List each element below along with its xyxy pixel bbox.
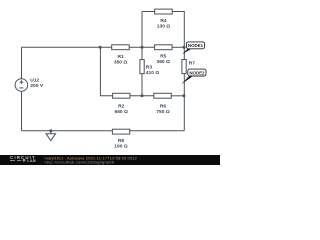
wire top-left horizontal to R1	[22, 46, 112, 48]
resistor R6	[154, 93, 172, 115]
svg-text:130 Ω: 130 Ω	[157, 24, 171, 30]
wire right rail from R7 top to NODE1 junction up to top corner then left to R4	[172, 12, 184, 60]
wire left rail from top corner down to source top	[21, 47, 23, 78]
svg-text:R7: R7	[189, 60, 196, 66]
ground	[46, 129, 56, 140]
wire below source down to bottom bus	[21, 91, 23, 130]
svg-text:R2: R2	[118, 104, 125, 110]
wire left mid rail down from R1 left junction	[100, 47, 112, 96]
voltage source U12	[15, 78, 44, 92]
node junction R1-R5-R3	[141, 46, 144, 49]
node junction left of R1	[99, 46, 102, 49]
svg-text:NODE2: NODE2	[189, 70, 205, 75]
resistor R2	[113, 93, 130, 115]
resistor R8	[112, 129, 129, 149]
wire bottom bus left segment	[22, 130, 113, 132]
resistor R3	[140, 47, 159, 96]
wire R6 right to right rail	[171, 95, 184, 97]
svg-text:R3: R3	[146, 64, 153, 70]
svg-text:200 V: 200 V	[30, 83, 44, 89]
wire R5 right to NODE1 junction	[172, 46, 184, 48]
svg-text:360 Ω: 360 Ω	[156, 59, 170, 65]
svg-text:750 Ω: 750 Ω	[156, 109, 170, 115]
node junction R6 right on right rail	[182, 94, 185, 97]
resistor R7	[182, 60, 195, 74]
svg-text:190 Ω: 190 Ω	[114, 143, 128, 149]
node junction R3 bottom	[141, 94, 144, 97]
svg-text:R6: R6	[160, 104, 167, 110]
svg-text:LAB: LAB	[27, 159, 36, 163]
svg-text:650 Ω: 650 Ω	[114, 109, 128, 115]
node NODE2 callout	[181, 69, 206, 84]
resistor R1	[112, 45, 130, 66]
svg-text:R1: R1	[117, 54, 124, 60]
svg-text:http://circuitlab.com/c22dugbg: http://circuitlab.com/c22dugbgnp56	[45, 160, 115, 164]
svg-text:R5: R5	[160, 54, 167, 60]
svg-text:NODE1: NODE1	[188, 43, 204, 48]
wire tap rail down from R4 row to R1/R5 row	[141, 12, 143, 48]
wire right rail bottom corner up to R7	[183, 74, 185, 131]
svg-text:410 Ω: 410 Ω	[146, 70, 160, 76]
resistor R5	[155, 45, 173, 65]
svg-text:R8: R8	[118, 138, 125, 144]
wire bottom bus right segment	[130, 130, 185, 132]
wire R1 right to junction	[129, 46, 154, 48]
node NODE1 junction	[183, 46, 186, 49]
wire from R4 left end to tap rail	[142, 11, 155, 13]
footer bar	[0, 155, 220, 165]
svg-text:R4: R4	[160, 18, 167, 24]
svg-text:350 Ω: 350 Ω	[114, 60, 128, 66]
wire mid bus between R2 and R6	[130, 95, 154, 97]
resistor R4	[155, 9, 173, 30]
svg-text:U12: U12	[30, 78, 39, 84]
node NODE1 callout	[182, 42, 205, 55]
